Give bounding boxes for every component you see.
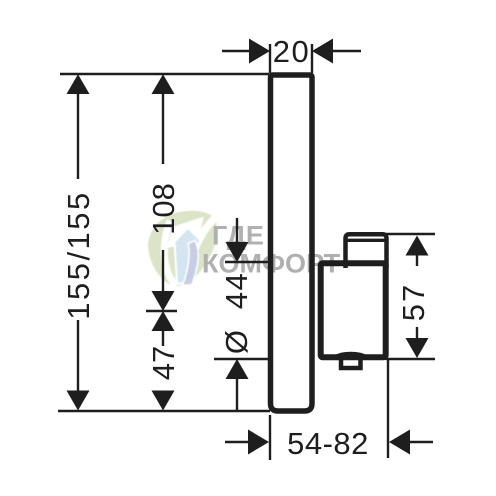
handle body — [321, 263, 386, 357]
handle bottom hump — [336, 354, 366, 357]
plate (escutcheon, side view) — [271, 75, 313, 411]
watermark white gap left of house — [164, 221, 176, 286]
watermark house (light blue) — [175, 228, 201, 284]
arrow 155-dim down — [67, 391, 90, 411]
watermark white roof gap wedge — [167, 217, 204, 249]
wire: top-left extension line — [60, 73, 269, 75]
wire: 20-dim right extension line — [311, 44, 313, 73]
wire: 54-82 left extension line — [269, 415, 271, 460]
svg-text:Ø: Ø — [219, 330, 254, 354]
wire: 155-dim line upper segment — [77, 92, 79, 179]
svg-text:20: 20 — [273, 34, 310, 69]
wire: 57-dim upper arrow tail — [416, 254, 418, 266]
wire: bottom extension line — [58, 410, 270, 412]
svg-text:47: 47 — [146, 346, 181, 380]
watermark white check swoosh — [186, 216, 218, 289]
arrow 54-82 pointing right — [248, 430, 269, 455]
wire: 57-dim top extension line — [386, 233, 435, 235]
wire: 57-dim lower arrow tail — [416, 327, 418, 339]
arrow 57-dim up — [406, 236, 429, 256]
wire: 54-82 right extension line — [387, 360, 389, 458]
handle button — [346, 234, 387, 268]
svg-text:155/155: 155/155 — [61, 190, 96, 320]
wire: 20-dim right arrow tail — [332, 50, 361, 52]
wire: dia44 lower line — [214, 358, 272, 360]
svg-text:44: 44 — [219, 272, 254, 309]
wire: 108-dim line lower segment — [162, 250, 164, 294]
wire: dia44 lower arrow tail — [236, 378, 238, 410]
arrow dia44 up — [226, 359, 249, 379]
wire: 20-dim left extension line — [269, 44, 271, 73]
arrow 108-dim down — [152, 291, 175, 311]
arrow 47-dim down — [152, 391, 175, 411]
arrow 20-dim pointing left — [312, 39, 333, 64]
arrow 54-82 pointing left — [389, 430, 410, 455]
arrow dia44 down — [226, 242, 249, 262]
arrow 108-dim up — [152, 74, 175, 94]
watermark logo leaf (pale green) — [148, 211, 217, 289]
handle bottom notch — [341, 357, 361, 368]
svg-text:108: 108 — [146, 183, 181, 235]
wire: 20-dim left arrow tail — [222, 50, 250, 52]
arrow 47-dim up — [152, 311, 175, 331]
wire: 47-dim line upper segment — [162, 330, 164, 346]
arrow 155-dim up — [67, 74, 90, 94]
wire: 155-dim line lower segment — [77, 320, 79, 393]
wire: 54-82 left arrow tail — [225, 441, 249, 443]
arrow 20-dim pointing right — [249, 39, 270, 64]
wire: dia44 upper line — [225, 261, 272, 263]
handle button inner line — [347, 239, 385, 242]
wire: 57-dim bottom extension line — [386, 358, 435, 360]
wire: 54-82 right arrow tail — [409, 441, 433, 443]
svg-text:54-82: 54-82 — [287, 426, 369, 461]
svg-text:57: 57 — [396, 283, 431, 321]
wire: 108-dim line upper segment — [162, 92, 164, 164]
wire: dia44 upper arrow tail — [236, 218, 238, 244]
arrow 57-dim down — [406, 338, 429, 358]
wire: axis tick line — [146, 310, 177, 312]
watermark check tail (periwinkle) — [183, 241, 199, 286]
